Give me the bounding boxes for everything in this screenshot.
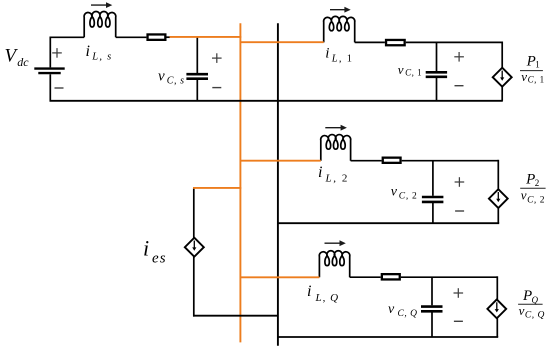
svg-text:v: v: [521, 69, 527, 84]
svg-text:C, Q: C, Q: [398, 309, 418, 319]
svg-text:v: v: [519, 303, 525, 318]
orange bus (energy-storage net): [239, 23, 241, 342]
wire inductor to resistor: [116, 36, 147, 38]
label iL1: [325, 46, 353, 65]
battery Vdc: [34, 69, 64, 74]
wire right vertical branch1 top: [501, 42, 503, 69]
orange wire bus to branch3: [240, 276, 319, 278]
svg-text:i: i: [325, 46, 329, 62]
wire bottom rail: [50, 100, 503, 102]
minus of vC1: [455, 85, 464, 87]
svg-text:v: v: [398, 62, 404, 77]
label vCQ: [388, 302, 417, 319]
wire resistor Rs to orange net: [167, 36, 171, 38]
orange wire ies to bus: [193, 187, 241, 189]
svg-text:e: e: [152, 251, 159, 267]
inductor Ls: [84, 11, 116, 37]
capacitor C1 stem top: [436, 42, 438, 71]
svg-text:C, Q: C, Q: [525, 310, 545, 320]
capacitor CQ stem bottom: [431, 312, 433, 337]
label ies: [143, 236, 166, 267]
wire R2 to right corner: [402, 160, 499, 162]
capacitor Cs stem bottom: [196, 80, 198, 101]
inductor L2: [321, 135, 351, 161]
minus of vCQ: [454, 320, 463, 322]
resistor R1: [386, 40, 405, 45]
label vC1: [398, 62, 422, 78]
resistor RQ: [382, 274, 400, 279]
wire R1 to right corner: [406, 41, 502, 43]
inductor LQ: [319, 251, 349, 277]
label vCs: [158, 69, 185, 87]
wire L3 to R3: [350, 276, 381, 278]
label iLQ: [307, 283, 339, 304]
minus of vCs: [212, 87, 221, 89]
current arrow iLs: [91, 2, 112, 8]
wire bottom rail branch2: [278, 222, 499, 224]
svg-text:v: v: [388, 302, 395, 317]
svg-text:i: i: [86, 43, 90, 60]
inductor L1: [324, 16, 355, 42]
wire L1 to R1: [355, 41, 385, 43]
orange wire bus to branch1: [240, 41, 323, 43]
svg-text:C, 1: C, 1: [528, 74, 545, 84]
capacitor CQ stem top: [431, 277, 433, 305]
plus of vC1: [454, 52, 464, 62]
plus of vC2: [455, 177, 465, 187]
label Vdc: [5, 46, 30, 70]
wire L2 to R2: [351, 160, 382, 162]
label iLs: [86, 43, 113, 63]
capacitor C1 plates: [426, 72, 447, 77]
svg-text:L, s: L, s: [91, 52, 112, 63]
capacitor Cs stem top: [196, 37, 198, 73]
svg-text:C, s: C, s: [167, 75, 185, 86]
minus terminal of Vdc: [55, 87, 64, 89]
label iL2: [318, 164, 349, 185]
wire right vertical branch2 top: [497, 160, 499, 190]
capacitor Cs plates: [186, 74, 208, 79]
label fraction P2/vC2: [520, 171, 545, 205]
wire right vertical branch1 bottom: [501, 87, 503, 101]
controlled source PQ/vCQ: [487, 299, 506, 318]
capacitor C2 plates: [422, 197, 444, 202]
current arrow iL1: [330, 7, 351, 13]
wire RQ to right corner: [401, 276, 497, 278]
svg-text:Q: Q: [532, 295, 539, 305]
svg-text:i: i: [318, 164, 322, 181]
current arrow iL2: [325, 125, 347, 131]
black dc bus: [277, 23, 279, 346]
wire ies bottom horizontal: [193, 315, 278, 317]
wire right vertical branchQ top: [496, 276, 498, 299]
svg-text:s: s: [160, 251, 166, 267]
wire bottom rail branchQ: [278, 336, 498, 338]
label fraction P1/vC1: [520, 53, 545, 84]
svg-text:v: v: [521, 188, 527, 203]
capacitor C2 stem bottom: [432, 203, 434, 223]
orange wire source to bus: [170, 36, 242, 38]
plus of vCQ: [454, 288, 464, 298]
controlled source ies: [185, 238, 204, 257]
wire left vertical bottom: [49, 74, 51, 101]
svg-text:L, Q: L, Q: [315, 292, 340, 304]
svg-text:i: i: [307, 283, 311, 300]
wire ies vertical top: [193, 188, 195, 238]
controlled source P1/vC1: [493, 68, 512, 87]
resistor R2: [383, 158, 401, 163]
plus terminal of Vdc: [52, 48, 62, 58]
wire top left: [50, 36, 85, 38]
plus of vCs: [212, 53, 222, 63]
svg-text:P: P: [526, 53, 536, 69]
label vC2: [391, 184, 418, 201]
svg-text:C, 1: C, 1: [405, 68, 422, 78]
resistor Rs: [148, 34, 166, 39]
capacitor C2 stem top: [432, 161, 434, 196]
svg-text:v: v: [158, 69, 165, 85]
label fraction PQ/vCQ: [518, 288, 545, 320]
svg-text:L, 2: L, 2: [325, 173, 350, 185]
minus of vC2: [455, 210, 464, 212]
wire left vertical top: [49, 37, 51, 68]
wire right vertical branch2 bottom: [497, 208, 499, 223]
svg-text:L, 1: L, 1: [331, 54, 354, 65]
svg-text:v: v: [391, 184, 398, 199]
capacitor C1 stem bottom: [436, 78, 438, 101]
wire right vertical branchQ bottom: [496, 318, 498, 337]
svg-text:dc: dc: [17, 55, 29, 69]
orange wire bus to branch2: [240, 160, 320, 162]
svg-text:1: 1: [535, 60, 540, 70]
svg-text:C, 2: C, 2: [527, 196, 545, 206]
svg-text:i: i: [143, 236, 149, 261]
svg-text:2: 2: [535, 178, 540, 188]
svg-text:P: P: [525, 171, 535, 187]
current arrow iLQ: [325, 240, 346, 246]
wire ies vertical bottom: [193, 257, 195, 317]
capacitor CQ plates: [421, 307, 443, 312]
controlled source P2/vC2: [489, 189, 508, 208]
svg-text:C, 2: C, 2: [399, 192, 418, 202]
